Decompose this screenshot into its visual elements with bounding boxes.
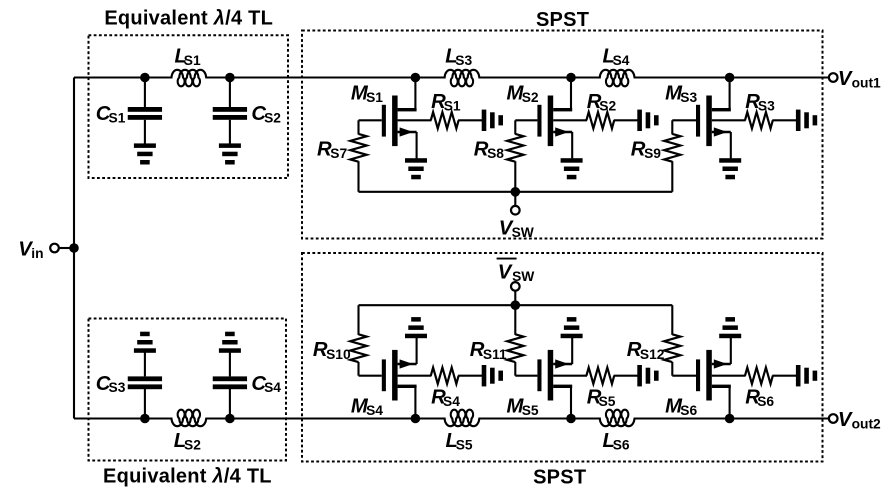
wire: gate drop to RS9 (671, 120, 673, 134)
wire: VSW stub (514, 192, 516, 206)
ground (RS3, rotated right) (796, 110, 801, 131)
terminal VSW (511, 206, 520, 215)
transistor MS1 (414, 78, 416, 111)
svg-text:SPST: SPST (536, 9, 589, 31)
terminal Vout1 (829, 73, 838, 82)
ground (MS6 source, pointing up) (719, 334, 741, 339)
wire: gate rise to RS10 (357, 362, 359, 376)
node: Vin junction (69, 243, 79, 253)
node D1 (drain of MS1) (411, 73, 421, 83)
node D2 (drain of MS2) (566, 73, 576, 83)
transistor MS3 (729, 78, 731, 111)
ground (CS2) (219, 143, 241, 148)
terminal Vout2 (829, 414, 838, 423)
resistor RS9 (664, 134, 680, 162)
svg-text:in: in (31, 246, 43, 261)
resistor RS6 (745, 368, 773, 384)
wire: gate drop to RS8 (514, 120, 516, 134)
svg-text:S4: S4 (264, 380, 281, 395)
svg-text:V: V (498, 262, 513, 284)
node E1 (drain of MS4) (411, 414, 421, 424)
resistor RS11 (507, 334, 523, 362)
inductor LS3 (445, 70, 480, 86)
wire: RS10 to VSWbar bus (357, 305, 359, 335)
node D3 (drain of MS3) (725, 73, 735, 83)
wire: body of MS1 to RS1 (398, 119, 432, 121)
terminal Vin (open circle + stub) (50, 244, 59, 253)
transistor MS5 (570, 386, 572, 419)
node VSWbar (511, 300, 521, 310)
inductor LS2 (172, 410, 207, 426)
wire: RS12 to VSWbar bus (671, 305, 673, 335)
ground (MS5 source, pointing up) (561, 334, 583, 339)
wire: input trunk vertical (73, 78, 75, 419)
node VSW (511, 187, 521, 197)
wire: RS3 to ground (772, 119, 796, 121)
node A2 (CS2 tap) (225, 73, 235, 83)
svg-text:S9: S9 (644, 146, 661, 161)
ground (CS3, pointing up) (134, 348, 156, 353)
svg-text:S5: S5 (456, 437, 473, 452)
resistor RS10 (350, 334, 366, 362)
ground (CS1) (134, 143, 156, 148)
svg-text:S4: S4 (443, 394, 460, 409)
wire: body of MS3 to RS3 (712, 119, 746, 121)
inductor LS5 (445, 410, 480, 426)
inductor LS1 (172, 70, 207, 86)
dashed box: bottom SPST (302, 253, 823, 462)
resistor RS5 (586, 368, 614, 384)
svg-text:out2: out2 (852, 416, 881, 431)
wire: body of MS4 to RS4 (398, 375, 432, 377)
wire: gate rise to RS11 (514, 362, 516, 376)
transistor MS6 (729, 386, 731, 419)
svg-text:SW: SW (512, 225, 535, 240)
node E3 (drain of MS6) (725, 414, 735, 424)
svg-text:S3: S3 (680, 90, 697, 105)
capacitor CS4 (229, 389, 231, 419)
resistor RS1 (431, 112, 459, 128)
svg-text:S6: S6 (613, 437, 630, 452)
svg-text:S4: S4 (366, 403, 383, 418)
inductor LS4 (600, 70, 635, 86)
node A1 (CS1 tap) (140, 73, 150, 83)
svg-text:SW: SW (512, 269, 535, 284)
svg-text:S4: S4 (613, 53, 630, 68)
svg-text:S2: S2 (184, 437, 201, 452)
wire: VSWbar bus (359, 304, 673, 306)
wire: gate drop to RS7 (357, 120, 359, 134)
dashed box: bottom equivalent quarter-wave TL (89, 319, 287, 461)
svg-text:S1: S1 (366, 90, 383, 105)
wire: RS5 to ground (614, 375, 638, 377)
dashed box: top equivalent quarter-wave TL (89, 35, 289, 178)
resistor RS2 (586, 112, 614, 128)
wire: RS2 to ground (614, 119, 638, 121)
wire: gate rise to RS12 (671, 362, 673, 376)
svg-text:S3: S3 (109, 380, 126, 395)
transistor MS2 (570, 78, 572, 111)
label VSWbar (with overline) (497, 258, 517, 260)
svg-text:S2: S2 (599, 98, 616, 113)
ground (RS2, rotated right) (637, 110, 642, 131)
svg-text:S3: S3 (455, 53, 472, 68)
wire: VSWbar stub (514, 290, 516, 305)
wire: body of MS6 to RS6 (712, 375, 746, 377)
inductor LS6 (600, 410, 635, 426)
ground (MS2 source) (561, 158, 583, 163)
ground (CS4, pointing up) (219, 348, 241, 353)
node B1 (CS3 tap) (140, 414, 150, 424)
capacitor CS1 (144, 78, 146, 108)
capacitor CS3 (144, 389, 146, 419)
ground (MS1 source) (405, 158, 427, 163)
wire: RS9 to VSW bus (671, 161, 673, 192)
wire: RS7 to VSW bus (357, 161, 359, 192)
wire: RS4 to ground (458, 375, 482, 377)
svg-text:S7: S7 (330, 146, 347, 161)
svg-text:S1: S1 (444, 98, 461, 113)
ground (RS6, rotated right) (796, 365, 801, 386)
ground (RS4, rotated right) (482, 365, 487, 386)
svg-text:S3: S3 (758, 98, 775, 113)
transistor MS4 (414, 386, 416, 419)
node E2 (drain of MS5) (566, 414, 576, 424)
svg-text:SPST: SPST (533, 466, 586, 488)
ground (MS4 source, pointing up) (405, 334, 427, 339)
svg-text:S2: S2 (264, 111, 281, 126)
ground (MS3 source) (719, 158, 741, 163)
resistor RS4 (431, 368, 459, 384)
resistor RS8 (507, 134, 523, 162)
dashed box: top SPST (302, 31, 823, 239)
terminal VSWbar (511, 282, 520, 291)
svg-text:S12: S12 (640, 347, 665, 362)
svg-text:S5: S5 (522, 403, 539, 418)
wire: top main line (74, 76, 173, 78)
wire: bottom main line (74, 417, 173, 419)
node B2 (CS4 tap) (225, 414, 235, 424)
wire: RS8 to VSW bus (514, 161, 516, 192)
svg-text:S1: S1 (109, 111, 126, 126)
wire: VSW bus (359, 191, 673, 193)
svg-text:Equivalent λ/4 TL: Equivalent λ/4 TL (103, 465, 272, 487)
svg-text:out1: out1 (852, 75, 881, 90)
wire: RS11 to VSWbar bus (514, 305, 516, 335)
svg-text:S8: S8 (487, 146, 504, 161)
wire: RS6 to ground (772, 375, 796, 377)
ground (RS5, rotated right) (637, 365, 642, 386)
svg-text:S6: S6 (680, 403, 697, 418)
wire: RS1 to ground (458, 119, 482, 121)
svg-text:S10: S10 (326, 347, 351, 362)
ground (RS1, rotated right) (482, 110, 487, 131)
svg-text:S6: S6 (757, 394, 774, 409)
svg-text:S11: S11 (483, 347, 507, 362)
resistor RS3 (745, 112, 773, 128)
svg-text:S5: S5 (599, 394, 616, 409)
svg-text:S1: S1 (184, 53, 201, 68)
wire: body of MS5 to RS5 (553, 375, 587, 377)
svg-text:Equivalent λ/4 TL: Equivalent λ/4 TL (104, 7, 273, 29)
resistor RS7 (350, 134, 366, 162)
resistor RS12 (664, 334, 680, 362)
capacitor CS2 (229, 78, 231, 108)
wire: body of MS2 to RS2 (553, 119, 587, 121)
svg-text:S2: S2 (522, 90, 539, 105)
